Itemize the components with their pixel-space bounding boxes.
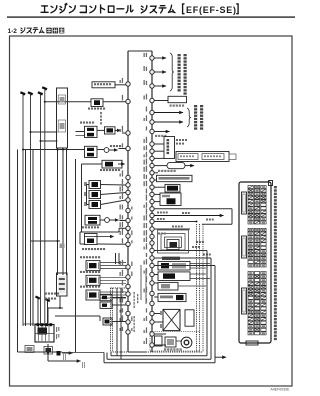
connector group 2: [242, 229, 267, 268]
condenser box: [44, 347, 53, 355]
test terminal box: [103, 318, 126, 325]
title rule: [7, 16, 295, 17]
ecu dashed border bottom and right: [111, 224, 204, 352]
wire loop inner: [104, 266, 215, 363]
wire rev limit loop: [154, 209, 232, 225]
coil output wires: [58, 148, 67, 275]
section heading: 1-2 system wiring diagram: [8, 27, 65, 35]
wire to check connector: [47, 344, 81, 361]
isc motor: [154, 309, 180, 330]
terminal block: [57, 351, 61, 356]
throttle sensor: [80, 256, 126, 270]
relay block: [154, 137, 174, 159]
shield stubs: [154, 221, 197, 230]
wire defogger output: [154, 85, 166, 87]
wire blower output: [154, 57, 166, 59]
wire output arrow: [154, 215, 223, 217]
main relay: [76, 122, 98, 138]
injector 2: [84, 191, 126, 199]
at note labels: [134, 292, 139, 332]
isc connector: [185, 310, 194, 326]
left bus terminals: [126, 82, 130, 334]
small sensor box: [154, 282, 206, 290]
wire pair companions: [26, 150, 34, 327]
injector 1: [84, 181, 126, 189]
connector group 1: [242, 186, 267, 225]
svg-text:EF(EF-SE): EF(EF-SE): [186, 5, 236, 15]
vertical label group1: [178, 54, 181, 92]
sensor wire drops: [116, 253, 147, 304]
main output arrow: [215, 356, 226, 358]
vehicle speed signal box: [100, 294, 126, 300]
brace group2: [187, 108, 191, 127]
relay block side text: [176, 139, 187, 145]
svg-text:1-2: 1-2: [8, 28, 18, 35]
wire coil primary: [30, 131, 58, 133]
ECU right bus line: [151, 51, 153, 352]
connector group 3: [242, 272, 267, 335]
ground rail wire left: [18, 150, 63, 353]
vertical label group2: [194, 105, 197, 130]
aircon amp box: [154, 334, 176, 347]
label strip: [162, 257, 180, 260]
circuit opening relay: [85, 145, 126, 158]
nested signal loops: [158, 230, 189, 253]
water temp sensor: [80, 286, 126, 300]
misc wire labels: [157, 212, 214, 256]
spark plug wire 3: [38, 92, 43, 326]
fuel pump: [88, 99, 126, 110]
pin labels left bus: [120, 78, 133, 331]
resistor boxes row: [176, 152, 236, 162]
diagnosis label box: [154, 173, 192, 182]
vsv valve: [80, 228, 126, 244]
check connector box: [92, 82, 126, 88]
wire spd: [99, 316, 101, 321]
ground tie wire: [62, 352, 104, 354]
wire coil secondary: [40, 140, 58, 142]
pressure sensor: [80, 271, 126, 285]
check engine lamp: [154, 184, 180, 192]
wire main feed across: [22, 149, 85, 151]
spark plug wire 1: [20, 92, 25, 326]
solenoid small box: [155, 336, 163, 346]
pickup coil box: [25, 346, 34, 353]
tacho output: [154, 162, 194, 172]
wire acm output: [154, 71, 166, 73]
wire ig signal: [154, 132, 169, 138]
wire loop outer: [111, 251, 207, 356]
ignition coil box: [57, 88, 68, 148]
tiny labels below distributor: [63, 354, 85, 368]
wire distributor signal: [31, 240, 65, 248]
knock sensor box: [154, 272, 210, 281]
label under isc: [164, 348, 182, 350]
distributor: [35, 323, 59, 342]
wire stp output: [154, 112, 183, 114]
wire loop mid: [107, 258, 211, 359]
dotted enclosure: [150, 332, 200, 352]
speed sensor reed: [176, 337, 192, 348]
svg-text:A4EF0030E: A4EF0030E: [271, 388, 291, 392]
wire ignition feed: [44, 101, 91, 103]
wire rail: [75, 159, 77, 352]
shift switch labels: [45, 293, 59, 295]
resistor box: [154, 293, 186, 301]
fuel cut solenoid: [82, 215, 126, 228]
ECU left bus line: [128, 51, 152, 352]
label column: [100, 112, 102, 124]
spark plug wire 4: [42, 87, 47, 326]
starter signal box: [100, 302, 126, 308]
igniter box: [57, 273, 68, 296]
relay contact box: [97, 127, 126, 134]
title: engine control system heading: [41, 3, 238, 15]
ecu connector block: [239, 181, 273, 346]
wire distributor feed: [23, 323, 45, 325]
brace group1: [170, 53, 174, 91]
igniter wires down: [48, 296, 100, 326]
distributor lead connectors: [36, 297, 50, 327]
pin labels right bus: [144, 53, 148, 344]
connector note vertical text: [274, 186, 277, 340]
shield dotted pair: [197, 224, 200, 352]
ecu dashed border left: [111, 288, 127, 352]
ignition switch box: [82, 160, 125, 232]
diagnosis connector box: [154, 193, 181, 206]
spark plug wire 2: [28, 92, 33, 326]
injector 3: [84, 200, 126, 209]
right bus terminals: [150, 56, 154, 347]
ox sensor box: [154, 261, 210, 270]
wire idl output: [154, 121, 183, 123]
label row: [82, 248, 105, 250]
injector rail: [87, 185, 90, 205]
a/c cut box: [154, 96, 186, 106]
